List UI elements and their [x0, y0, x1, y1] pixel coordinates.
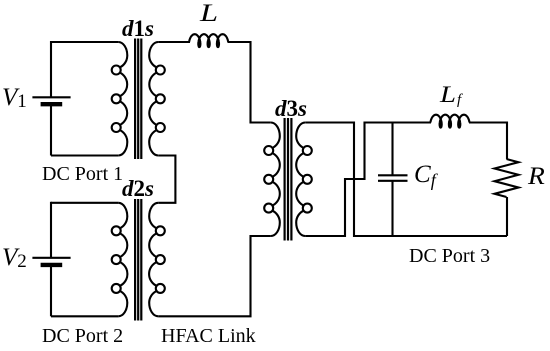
transformer d3s primary winding [271, 123, 280, 237]
resistor R [495, 159, 519, 197]
wire d2s secondary bottom to d3s primary bottom [158, 236, 271, 316]
battery V1 long plate [32, 96, 70, 98]
capacitor Cf top plate [378, 174, 408, 176]
transformer d2s secondary winding [149, 203, 158, 316]
transformer d1s primary winding [118, 42, 127, 156]
label V2 [2, 244, 27, 273]
wire left of V1 loop upper [50, 41, 52, 97]
wire left of V2 loop upper [50, 202, 52, 258]
wire d3s secondary top to DC port 3 bottom rail [305, 123, 507, 237]
inductor Lf [430, 115, 469, 128]
label DC Port 3 [409, 245, 490, 268]
label HFAC Link [161, 325, 256, 348]
wire capacitor branch upper [391, 123, 393, 176]
wire top of V1 loop [51, 41, 118, 43]
wire capacitor branch lower [391, 181, 393, 236]
label L [200, 0, 218, 28]
wire d1s secondary top to inductor L [158, 41, 190, 43]
label d1s [122, 16, 154, 42]
battery V1 thick plate [41, 102, 63, 106]
transformer d3s core [285, 118, 292, 241]
wire resistor bottom [506, 197, 508, 236]
transformer d1s secondary winding [149, 42, 158, 156]
transformer d1s core [135, 39, 141, 160]
label V1 [2, 84, 27, 113]
label R [528, 163, 545, 191]
wire Lf to top-right corner [469, 123, 507, 160]
label Lf [440, 82, 456, 108]
wire bottom of V1 loop [51, 154, 118, 156]
transformer d2s primary winding [118, 203, 127, 316]
wire d3s secondary bottom crossover to DC port 3 top rail [305, 123, 431, 237]
label DC Port 2 [42, 325, 123, 348]
label DC Port 1 [42, 163, 123, 186]
battery V2 thick plate [41, 263, 63, 267]
wire L to corner down to d3s primary top [228, 42, 271, 123]
wire left of V2 loop lower [50, 265, 52, 316]
transformer d3s secondary winding [296, 123, 305, 237]
capacitor Cf bottom plate [378, 180, 408, 182]
label d2s [122, 176, 154, 202]
label Cf [414, 161, 436, 191]
wire top of V2 loop [51, 202, 118, 204]
wire bottom of V2 loop [51, 315, 118, 317]
transformer d2s core [135, 199, 141, 321]
label Lf subscript [457, 92, 461, 109]
battery V2 long plate [32, 257, 70, 259]
wire left of V1 loop lower [50, 104, 52, 155]
label d3s [275, 96, 307, 122]
wire d1s secondary bottom to d2s secondary top [158, 156, 175, 203]
inductor L [189, 34, 228, 47]
